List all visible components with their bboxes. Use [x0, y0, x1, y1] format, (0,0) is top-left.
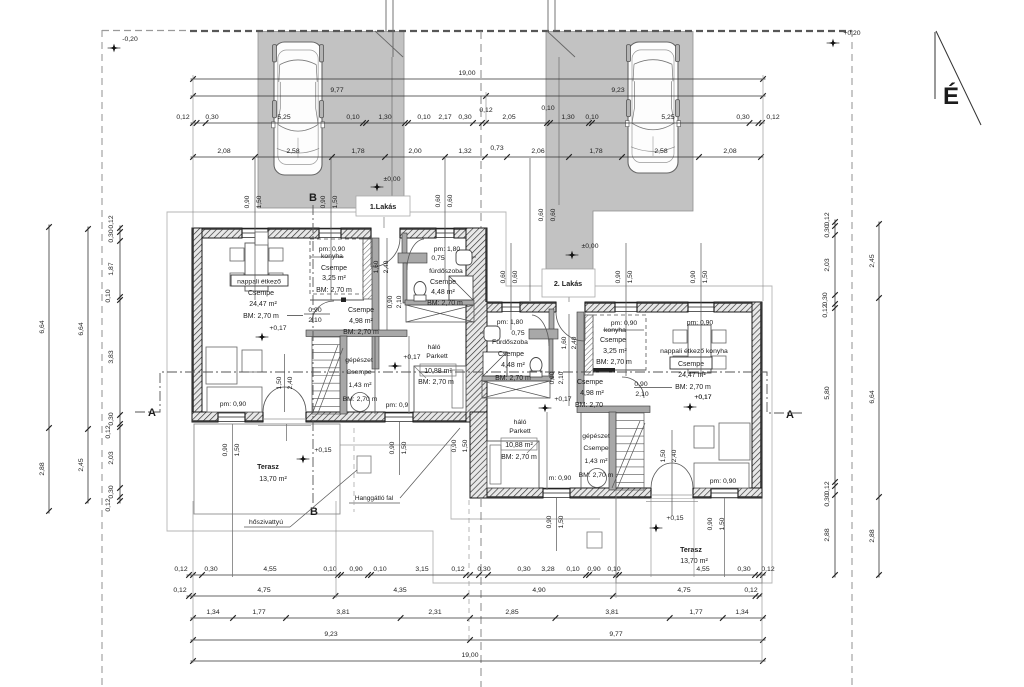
unit 2 hall labels	[575, 379, 672, 409]
level marker 0,00 unit 1	[371, 176, 401, 191]
svg-text:1,60: 1,60	[561, 336, 568, 349]
window dimension lines unit 1 top	[244, 158, 339, 300]
unit 2 window in bottom wall left	[543, 488, 570, 498]
extension line party wall dashed	[354, 428, 469, 641]
unit 2 bathroom door arc	[532, 315, 549, 346]
svg-text:2,08: 2,08	[217, 148, 230, 155]
unit 1 bathroom toilet	[414, 282, 426, 302]
unit 2 sofa group	[694, 423, 750, 488]
svg-text:5,80: 5,80	[824, 386, 831, 399]
north symbol E	[935, 31, 981, 125]
unit 2 window W0 in top wall	[502, 302, 520, 312]
unit 2 shaft with cross bracing	[482, 381, 550, 398]
svg-text:+0,20: +0,20	[843, 30, 860, 37]
svg-text:4,55: 4,55	[696, 566, 709, 573]
svg-text:0,10: 0,10	[566, 566, 579, 573]
svg-text:0,75: 0,75	[511, 330, 524, 337]
svg-text:nappali étkező: nappali étkező	[237, 279, 281, 286]
svg-text:0,30: 0,30	[458, 114, 471, 121]
svg-text:3,81: 3,81	[605, 609, 618, 616]
svg-text:0,90: 0,90	[244, 195, 251, 208]
svg-text:BM: 2,70 m: BM: 2,70 m	[243, 313, 279, 320]
unit 1 bathroom door arc	[407, 239, 424, 270]
extension lines bottom left	[193, 424, 336, 663]
bottom dimension row total	[190, 652, 766, 664]
terrace 1 labels	[257, 464, 287, 483]
svg-text:háló: háló	[428, 344, 441, 351]
unit 1 entrance door opening in top wall	[371, 228, 400, 238]
svg-text:0,90: 0,90	[451, 439, 458, 452]
unit 2 entrance door arc	[556, 312, 585, 341]
unit 2 utility room labels	[579, 433, 614, 479]
svg-text:0,10: 0,10	[105, 289, 112, 302]
unit 1 bathroom labels	[427, 246, 463, 307]
section line A-A	[135, 372, 803, 413]
svg-text:Terasz: Terasz	[680, 547, 702, 554]
level marker -0,20 top left	[108, 36, 138, 52]
svg-text:1,34: 1,34	[735, 609, 748, 616]
unit 2 living room labels	[660, 320, 728, 402]
unit 1 dining chairs	[230, 232, 283, 286]
unit 2 staircase	[612, 413, 645, 490]
bottom dimension row walls	[190, 609, 766, 621]
svg-text:0,30: 0,30	[108, 485, 115, 498]
unit 2 utility room boundary	[547, 412, 581, 490]
svg-text:+0,17: +0,17	[269, 325, 286, 332]
svg-text:3,28: 3,28	[541, 566, 554, 573]
unit 2 shower tray	[483, 352, 507, 376]
svg-text:0,60: 0,60	[447, 194, 454, 207]
svg-text:2,45: 2,45	[869, 254, 876, 267]
svg-text:BM: 2,70 m: BM: 2,70 m	[495, 375, 531, 382]
unit 2 bathroom door size labels	[549, 371, 565, 384]
svg-text:konyha: konyha	[321, 253, 343, 260]
svg-text:24,47 m²: 24,47 m²	[678, 372, 706, 379]
svg-text:4,90: 4,90	[532, 587, 545, 594]
svg-text:Terasz: Terasz	[257, 464, 279, 471]
svg-text:3,81: 3,81	[336, 609, 349, 616]
svg-text:1,50: 1,50	[401, 441, 408, 454]
property boundary left (dashed)	[101, 30, 103, 687]
svg-text:BM: 2,70 m: BM: 2,70 m	[427, 300, 463, 307]
level marker +0,17 unit 1 living	[256, 325, 287, 341]
unit 1 sofa group	[206, 347, 262, 412]
svg-text:+0,17: +0,17	[403, 354, 420, 361]
svg-text:1,77: 1,77	[689, 609, 702, 616]
svg-text:1,50: 1,50	[332, 195, 339, 208]
svg-text:Csempe: Csempe	[348, 307, 374, 314]
svg-text:0,12: 0,12	[824, 212, 831, 225]
svg-text:2,31: 2,31	[428, 609, 441, 616]
unit 2 kitchen labels	[596, 320, 637, 366]
svg-text:4,48 m²: 4,48 m²	[501, 362, 525, 369]
unit 1 utility room labels	[343, 357, 378, 403]
svg-text:1,50: 1,50	[234, 443, 241, 456]
unit 2 entrance door opening in top wall	[556, 302, 585, 312]
svg-text:2,58: 2,58	[654, 148, 667, 155]
svg-text:Csempe: Csempe	[577, 379, 603, 386]
extension lines bottom right	[616, 490, 762, 663]
svg-text:1,50: 1,50	[660, 449, 667, 462]
unit 1 hall labels	[304, 307, 379, 336]
svg-text:nappali étkező konyha: nappali étkező konyha	[660, 348, 728, 355]
svg-text:BM: 2,70 m: BM: 2,70 m	[579, 472, 614, 479]
svg-text:0,90: 0,90	[634, 381, 647, 388]
svg-text:Csempe: Csempe	[346, 369, 372, 376]
svg-text:10,88 m²: 10,88 m²	[424, 368, 452, 375]
svg-text:0,12: 0,12	[105, 498, 112, 511]
svg-text:Fürdőszoba: Fürdőszoba	[492, 339, 528, 346]
svg-text:0,12: 0,12	[173, 587, 186, 594]
svg-text:1,50: 1,50	[256, 195, 263, 208]
svg-text:0,12: 0,12	[824, 481, 831, 494]
svg-text:0,90: 0,90	[546, 515, 553, 528]
unit 2 terrace french door opening	[646, 488, 698, 502]
svg-text:1,87: 1,87	[108, 262, 115, 275]
unit 1 kitchen counter	[363, 239, 372, 299]
svg-text:BM: 2,70 m: BM: 2,70 m	[343, 329, 379, 336]
svg-text:0,75: 0,75	[431, 255, 444, 262]
svg-text:6,64: 6,64	[39, 320, 46, 333]
svg-text:0,30: 0,30	[737, 566, 750, 573]
unit 1 exterior wall top	[192, 228, 470, 238]
svg-text:1,34: 1,34	[206, 609, 219, 616]
unit 1 window W3 in top wall	[436, 228, 454, 238]
svg-text:0,30: 0,30	[108, 412, 115, 425]
unit 2 kitchen floor boundary (dashed)	[593, 315, 646, 370]
svg-text:0,12: 0,12	[176, 114, 189, 121]
svg-text:Csempe: Csempe	[678, 361, 704, 368]
svg-text:0,12: 0,12	[766, 114, 779, 121]
section marker A left	[148, 407, 156, 419]
terrace 2 labels	[680, 547, 708, 565]
level marker +0,15 terrace 1	[297, 447, 332, 463]
svg-text:4,35: 4,35	[393, 587, 406, 594]
svg-text:0,90: 0,90	[549, 371, 556, 384]
svg-text:0,10: 0,10	[541, 105, 554, 112]
svg-text:pm: 0,9: pm: 0,9	[386, 402, 409, 409]
unit 1 terrace french door opening	[258, 412, 311, 426]
level marker +0,17 unit 2 bedroom	[539, 396, 572, 412]
svg-text:0,10: 0,10	[323, 566, 336, 573]
svg-text:BM: 2,70 m: BM: 2,70 m	[418, 379, 454, 386]
svg-text:0,90: 0,90	[349, 566, 362, 573]
svg-text:4,55: 4,55	[263, 566, 276, 573]
svg-text:0,90: 0,90	[389, 441, 396, 454]
unit 1 window W1 in top wall	[242, 228, 268, 238]
terrace of unit 2	[616, 498, 762, 583]
svg-text:A: A	[148, 407, 156, 419]
unit 2 partition kitchen bottom	[588, 368, 646, 373]
heat pump unit 2 square	[587, 532, 602, 548]
svg-text:2,08: 2,08	[723, 148, 736, 155]
svg-text:0,30: 0,30	[517, 566, 530, 573]
unit 2 bathroom labels	[492, 319, 531, 382]
svg-text:2,45: 2,45	[78, 458, 85, 471]
svg-text:0,12: 0,12	[108, 215, 115, 228]
svg-text:2,03: 2,03	[108, 451, 115, 464]
svg-text:0,30: 0,30	[204, 566, 217, 573]
window dimension lines unit 2 top	[500, 243, 709, 376]
utility connection lines driveway 1	[375, 0, 403, 57]
property boundary, street side (dashed)	[102, 30, 852, 33]
svg-text:+0,17: +0,17	[554, 396, 571, 403]
svg-text:BM: 2,70 m: BM: 2,70 m	[316, 287, 352, 294]
left middle dimension column	[78, 226, 91, 504]
svg-text:pm: 0,90: pm: 0,90	[611, 320, 638, 327]
unit 2 kitchen door size labels	[561, 336, 578, 349]
svg-text:Hanggátló fal: Hanggátló fal	[355, 495, 394, 502]
car on driveway 2	[626, 42, 681, 173]
unit 1 bathroom washbasin	[456, 250, 476, 265]
svg-text:Parkett: Parkett	[509, 428, 531, 435]
unit 1 stair room wall	[306, 330, 407, 414]
svg-text:m: 0,90: m: 0,90	[549, 475, 572, 482]
svg-text:0,12: 0,12	[105, 425, 112, 438]
svg-text:konyha: konyha	[604, 327, 626, 334]
svg-text:Csempe: Csempe	[321, 265, 347, 272]
svg-text:BM: 2,70 m: BM: 2,70 m	[596, 359, 632, 366]
svg-text:0,60: 0,60	[500, 270, 507, 283]
svg-text:2,88: 2,88	[39, 462, 46, 475]
svg-text:pm: 0,90: pm: 0,90	[220, 401, 247, 408]
unit 2 dining table	[688, 325, 711, 373]
section marker B bottom	[310, 506, 318, 518]
svg-text:1,43 m²: 1,43 m²	[584, 458, 608, 465]
unit 1 bathroom door size labels	[387, 295, 403, 308]
unit 2 exterior wall top	[487, 302, 762, 312]
unit 1 living room door arc	[312, 301, 334, 322]
roof eaves outline	[167, 212, 772, 583]
utility connection lines driveway 2	[392, 0, 575, 205]
unit 2 bathroom bottom wall	[482, 376, 551, 381]
svg-text:BM: 2,70 m: BM: 2,70 m	[501, 454, 537, 461]
unit 1 partition kitchen/hall	[372, 238, 379, 369]
svg-text:0,90: 0,90	[707, 517, 714, 530]
unit 2 stair room wall	[577, 406, 650, 490]
svg-text:fürdőszoba: fürdőszoba	[429, 268, 463, 275]
svg-text:0,30: 0,30	[824, 224, 831, 237]
svg-text:pm: 0,90: pm: 0,90	[710, 478, 737, 485]
svg-text:±0,00: ±0,00	[384, 176, 401, 183]
svg-text:1,50: 1,50	[276, 376, 283, 389]
bottom dimension row rooms	[173, 587, 762, 599]
unit 2 parapet labels	[549, 475, 737, 485]
unit 2 kitchen counter	[585, 315, 594, 375]
svg-text:3,15: 3,15	[415, 566, 428, 573]
level marker +0,17 unit 1 bedroom	[389, 354, 421, 370]
unit 1 kitchen labels	[316, 246, 352, 294]
svg-text:1,30: 1,30	[561, 114, 574, 121]
left detail dimension column	[105, 215, 123, 511]
svg-text:6,64: 6,64	[78, 322, 85, 335]
svg-text:0,10: 0,10	[346, 114, 359, 121]
bottom dimension row halves	[190, 631, 766, 643]
svg-text:4,98 m²: 4,98 m²	[349, 318, 373, 325]
svg-text:2,40: 2,40	[383, 260, 390, 273]
unit 1 partition kitchen bottom	[310, 298, 364, 303]
svg-text:0,10: 0,10	[607, 566, 620, 573]
svg-text:1,50: 1,50	[702, 270, 709, 283]
svg-text:2,88: 2,88	[869, 529, 876, 542]
svg-text:0,60: 0,60	[550, 208, 557, 221]
svg-text:Parkett: Parkett	[426, 353, 448, 360]
party wall between units (Hanggatlo fal)	[466, 228, 487, 498]
svg-text:1,50: 1,50	[462, 439, 469, 452]
svg-text:5,25: 5,25	[277, 114, 290, 121]
svg-text:gépészet: gépészet	[345, 357, 373, 364]
svg-text:24,47 m²: 24,47 m²	[249, 301, 277, 308]
driveway 2 paved area	[546, 32, 693, 270]
svg-text:9,23: 9,23	[324, 631, 337, 638]
window dimension labels near party wall	[451, 208, 557, 452]
left outer dimension column	[39, 224, 52, 514]
unit 1 bedroom labels	[418, 344, 456, 386]
unit 2 partition kitchen/hall	[577, 312, 584, 403]
svg-text:0,10: 0,10	[585, 114, 598, 121]
svg-text:0,30: 0,30	[736, 114, 749, 121]
unit 2 bedroom labels	[501, 419, 537, 461]
section line B-B	[312, 205, 314, 505]
unit 1 terrace door size labels	[276, 354, 294, 412]
unit 2 window W2 in top wall	[688, 302, 714, 312]
svg-text:5,25: 5,25	[661, 114, 674, 121]
unit 1 living room labels	[231, 275, 303, 320]
svg-text:pm: 0,90: pm: 0,90	[687, 320, 714, 327]
svg-text:Csempe: Csempe	[248, 290, 274, 297]
svg-text:9,23: 9,23	[611, 87, 624, 94]
svg-text:0,12: 0,12	[744, 587, 757, 594]
dimension row 9,77 / 9,23 top	[190, 87, 766, 99]
unit 1 parapet labels	[220, 401, 409, 409]
window dimension lines unit 1 bottom	[222, 422, 408, 475]
unit 1 utility room boundary	[375, 336, 409, 414]
unit 2 window W1 in top wall	[615, 302, 637, 312]
svg-text:B: B	[310, 506, 318, 518]
svg-text:2,17: 2,17	[438, 114, 451, 121]
unit 2 dining chairs	[673, 330, 726, 369]
svg-text:0,90: 0,90	[222, 443, 229, 456]
svg-text:1,78: 1,78	[589, 148, 602, 155]
svg-text:4,48 m²: 4,48 m²	[431, 289, 455, 296]
unit 2 bed	[487, 441, 539, 488]
unit 1 entrance door dim line	[386, 238, 388, 330]
unit 1 dining table	[245, 243, 268, 291]
unit 2 terrace double door arcs	[651, 463, 693, 488]
svg-text:13,70 m²: 13,70 m²	[259, 476, 287, 483]
driveway 1 paved area	[258, 32, 404, 209]
svg-text:4,75: 4,75	[257, 587, 270, 594]
svg-text:háló: háló	[514, 419, 527, 426]
svg-text:0,12: 0,12	[451, 566, 464, 573]
heat pump label + leader	[244, 470, 357, 527]
svg-text:0,60: 0,60	[538, 208, 545, 221]
unit 2 bathroom toilet	[530, 358, 542, 378]
unit 1 kitchen floor boundary (dashed)	[310, 239, 363, 294]
level marker +0,15 terrace 2	[650, 515, 684, 532]
unit 1 kitchen door size labels	[373, 260, 390, 273]
svg-text:2,10: 2,10	[635, 391, 648, 398]
svg-text:0,30: 0,30	[205, 114, 218, 121]
level marker 0,00 unit 2	[566, 243, 599, 259]
unit 2 bathroom closet wall	[529, 309, 558, 379]
plot centre dividing line (dashed)	[480, 31, 482, 687]
svg-text:1.Lakás: 1.Lakás	[370, 202, 396, 211]
reference line at x530	[529, 158, 531, 301]
svg-text:19,00: 19,00	[461, 652, 478, 659]
svg-text:1,43 m²: 1,43 m²	[348, 382, 372, 389]
svg-text:hőszivattyú: hőszivattyú	[249, 519, 283, 526]
svg-text:1,32: 1,32	[458, 148, 471, 155]
svg-text:0,90: 0,90	[308, 307, 321, 314]
svg-text:A: A	[786, 409, 794, 421]
heat pump unit square	[357, 456, 371, 473]
dimension row parking top	[190, 145, 764, 160]
svg-text:0,90: 0,90	[690, 270, 697, 283]
unit 1 boiler	[351, 393, 370, 412]
svg-text:Csempe: Csempe	[498, 351, 524, 358]
svg-text:9,77: 9,77	[330, 87, 343, 94]
svg-text:-0,20: -0,20	[122, 36, 138, 43]
svg-text:4,75: 4,75	[677, 587, 690, 594]
svg-text:2,40: 2,40	[287, 376, 294, 389]
unit 1 bathroom closet wall	[398, 233, 427, 303]
extension lines top	[193, 75, 763, 301]
unit 1 exterior wall left	[192, 228, 202, 422]
svg-text:1,30: 1,30	[378, 114, 391, 121]
svg-text:Csempe: Csempe	[600, 337, 626, 344]
svg-text:0,73: 0,73	[490, 145, 503, 152]
svg-text:Csempe: Csempe	[430, 279, 456, 286]
section marker A right	[786, 409, 794, 421]
svg-text:1,78: 1,78	[351, 148, 364, 155]
svg-text:+0,15: +0,15	[314, 447, 331, 454]
svg-text:2,10: 2,10	[308, 317, 321, 324]
svg-text:2,40: 2,40	[571, 336, 578, 349]
entrance dimension lines unit 1	[435, 158, 454, 280]
unit 2 exterior wall right	[752, 302, 762, 498]
svg-text:Csempe: Csempe	[583, 445, 609, 452]
section marker B top	[309, 192, 317, 204]
svg-text:0,90: 0,90	[615, 270, 622, 283]
unit 1 window in bottom wall right	[385, 412, 413, 422]
svg-text:13,70 m²: 13,70 m²	[680, 558, 708, 565]
svg-text:3,25 m²: 3,25 m²	[322, 275, 346, 282]
svg-text:É: É	[943, 82, 959, 110]
unit 1 bed	[414, 366, 466, 412]
svg-text:2,06: 2,06	[531, 148, 544, 155]
svg-text:+0,15: +0,15	[666, 515, 683, 522]
right detail dimension column	[822, 212, 838, 578]
unit 2 terrace door size labels	[660, 430, 678, 516]
svg-text:2,88: 2,88	[824, 528, 831, 541]
svg-text:0,12: 0,12	[761, 566, 774, 573]
svg-text:0,30: 0,30	[824, 493, 831, 506]
level marker +0,20 top right	[827, 30, 861, 47]
svg-text:0,60: 0,60	[512, 270, 519, 283]
svg-text:0,10: 0,10	[373, 566, 386, 573]
svg-text:BM: 2,70 m: BM: 2,70 m	[343, 396, 378, 403]
svg-text:0,12: 0,12	[174, 566, 187, 573]
svg-text:1,50: 1,50	[719, 517, 726, 530]
unit 2 entrance door dim line	[568, 314, 570, 406]
svg-text:2,58: 2,58	[286, 148, 299, 155]
terrace of unit 1	[194, 424, 340, 514]
unit 2 living room door arc	[622, 377, 644, 398]
unit 1 shower tray	[449, 276, 473, 300]
unit 2 bathroom washbasin	[480, 326, 500, 341]
dimension row 19,00 top	[190, 70, 766, 82]
